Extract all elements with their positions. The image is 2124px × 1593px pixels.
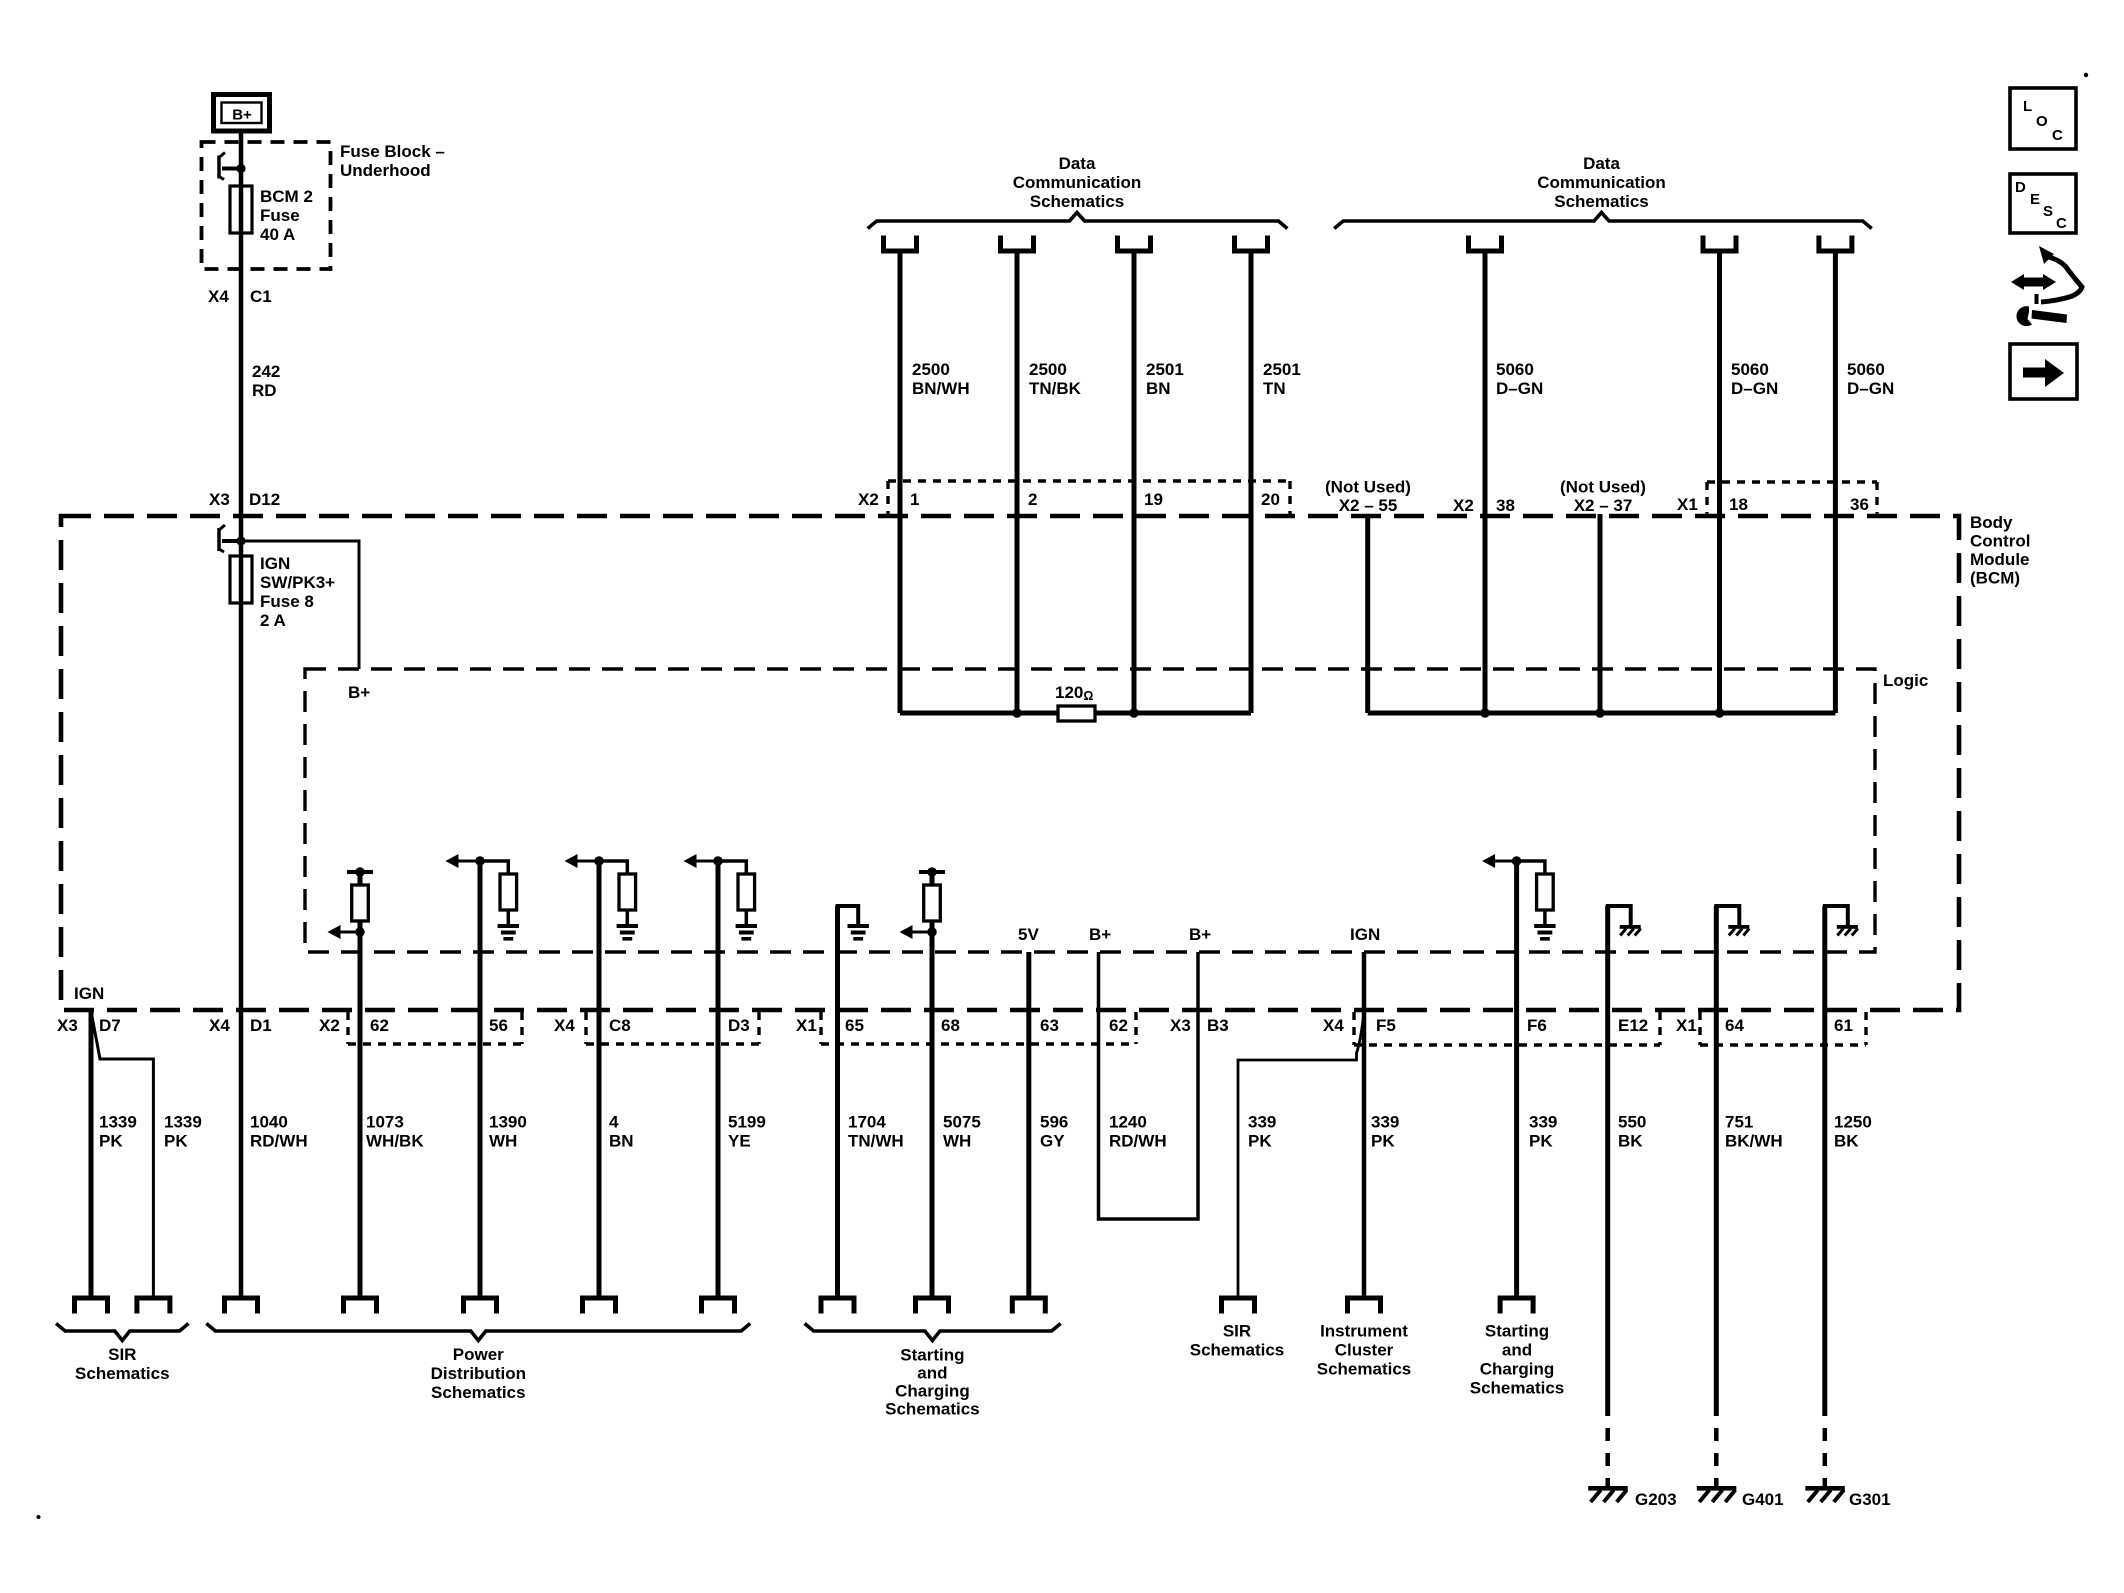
svg-text:2500: 2500 — [912, 360, 950, 379]
svg-text:D–GN: D–GN — [1731, 379, 1778, 398]
svg-text:C: C — [2052, 127, 2063, 144]
svg-text:1250: 1250 — [1834, 1113, 1872, 1132]
svg-text:596: 596 — [1040, 1113, 1068, 1132]
svg-text:C1: C1 — [250, 287, 272, 306]
svg-text:X4: X4 — [208, 287, 229, 306]
svg-text:Charging: Charging — [895, 1382, 970, 1401]
svg-text:D12: D12 — [249, 490, 280, 509]
svg-text:339: 339 — [1371, 1113, 1399, 1132]
svg-text:B+: B+ — [232, 107, 252, 124]
svg-text:(BCM): (BCM) — [1970, 569, 2020, 588]
svg-text:SW/PK3+: SW/PK3+ — [260, 573, 335, 592]
svg-text:Data: Data — [1583, 154, 1620, 173]
svg-text:Starting: Starting — [1485, 1322, 1549, 1341]
svg-text:X3: X3 — [1170, 1016, 1191, 1035]
svg-text:5V: 5V — [1018, 925, 1039, 944]
svg-text:IGN: IGN — [260, 554, 290, 573]
svg-text:1390: 1390 — [489, 1113, 527, 1132]
svg-text:GY: GY — [1040, 1132, 1065, 1151]
svg-text:56: 56 — [489, 1016, 508, 1035]
svg-text:751: 751 — [1725, 1113, 1753, 1132]
svg-text:1339: 1339 — [164, 1113, 202, 1132]
svg-text:B+: B+ — [1189, 925, 1211, 944]
svg-text:Module: Module — [1970, 550, 2030, 569]
svg-text:Data: Data — [1059, 154, 1096, 173]
svg-text:36: 36 — [1850, 495, 1869, 514]
svg-text:X3: X3 — [209, 490, 230, 509]
svg-text:4: 4 — [609, 1113, 619, 1132]
svg-text:BN/WH: BN/WH — [912, 379, 970, 398]
svg-text:F6: F6 — [1527, 1016, 1547, 1035]
svg-text:WH: WH — [943, 1132, 971, 1151]
svg-text:Cluster: Cluster — [1335, 1341, 1394, 1360]
svg-text:D–GN: D–GN — [1847, 379, 1894, 398]
svg-text:61: 61 — [1834, 1016, 1853, 1035]
svg-text:X1: X1 — [1677, 495, 1698, 514]
svg-text:68: 68 — [941, 1016, 960, 1035]
svg-text:2500: 2500 — [1029, 360, 1067, 379]
svg-text:TN/WH: TN/WH — [848, 1132, 904, 1151]
svg-text:20: 20 — [1261, 490, 1280, 509]
svg-text:1: 1 — [910, 490, 919, 509]
svg-text:SIR: SIR — [1223, 1322, 1251, 1341]
svg-text:339: 339 — [1248, 1113, 1276, 1132]
svg-text:BN: BN — [609, 1132, 634, 1151]
svg-text:38: 38 — [1496, 496, 1515, 515]
svg-text:X3: X3 — [57, 1016, 78, 1035]
svg-text:BCM 2: BCM 2 — [260, 187, 313, 206]
svg-text:Fuse Block –: Fuse Block – — [340, 142, 445, 161]
svg-text:2: 2 — [1028, 490, 1037, 509]
svg-text:X1: X1 — [796, 1016, 817, 1035]
svg-text:IGN: IGN — [74, 984, 104, 1003]
svg-text:B+: B+ — [1089, 925, 1111, 944]
svg-text:PK: PK — [1248, 1132, 1272, 1151]
svg-text:5060: 5060 — [1731, 360, 1769, 379]
svg-text:SIR: SIR — [108, 1345, 136, 1364]
svg-text:Schematics: Schematics — [431, 1383, 526, 1402]
svg-text:Instrument: Instrument — [1320, 1322, 1408, 1341]
svg-text:PK: PK — [1371, 1132, 1395, 1151]
svg-text:Communication: Communication — [1013, 173, 1141, 192]
svg-text:O: O — [2036, 113, 2048, 130]
svg-text:RD/WH: RD/WH — [1109, 1132, 1167, 1151]
svg-text:X4: X4 — [1323, 1016, 1344, 1035]
svg-text:Schematics: Schematics — [1317, 1360, 1412, 1379]
svg-text:X2 – 55: X2 – 55 — [1339, 496, 1398, 515]
svg-text:Distribution: Distribution — [431, 1364, 526, 1383]
svg-text:2 A: 2 A — [260, 611, 286, 630]
svg-text:64: 64 — [1725, 1016, 1744, 1035]
svg-text:5199: 5199 — [728, 1113, 766, 1132]
svg-text:RD/WH: RD/WH — [250, 1132, 308, 1151]
svg-text:5075: 5075 — [943, 1113, 981, 1132]
svg-text:62: 62 — [1109, 1016, 1128, 1035]
svg-text:Body: Body — [1970, 513, 2013, 532]
svg-text:Underhood: Underhood — [340, 161, 431, 180]
svg-text:G203: G203 — [1635, 1490, 1677, 1509]
svg-text:D3: D3 — [728, 1016, 750, 1035]
svg-text:X4: X4 — [554, 1016, 575, 1035]
svg-text:62: 62 — [370, 1016, 389, 1035]
svg-text:E: E — [2030, 191, 2040, 208]
svg-text:X4: X4 — [209, 1016, 230, 1035]
svg-text:D–GN: D–GN — [1496, 379, 1543, 398]
svg-text:1040: 1040 — [250, 1113, 288, 1132]
svg-text:X2: X2 — [319, 1016, 340, 1035]
svg-text:1240: 1240 — [1109, 1113, 1147, 1132]
svg-text:18: 18 — [1729, 495, 1748, 514]
svg-text:Fuse: Fuse — [260, 206, 300, 225]
svg-text:Schematics: Schematics — [1554, 192, 1649, 211]
svg-text:1339: 1339 — [99, 1113, 137, 1132]
svg-text:1704: 1704 — [848, 1113, 886, 1132]
svg-text:TN/BK: TN/BK — [1029, 379, 1082, 398]
svg-text:(Not Used): (Not Used) — [1325, 478, 1411, 497]
svg-text:Schematics: Schematics — [885, 1400, 980, 1419]
svg-text:BK/WH: BK/WH — [1725, 1132, 1783, 1151]
svg-text:2501: 2501 — [1146, 360, 1184, 379]
svg-text:YE: YE — [728, 1132, 751, 1151]
svg-text:C: C — [2056, 215, 2067, 232]
svg-text:WH/BK: WH/BK — [366, 1132, 424, 1151]
svg-text:5060: 5060 — [1496, 360, 1534, 379]
svg-text:40 A: 40 A — [260, 225, 295, 244]
svg-text:65: 65 — [845, 1016, 864, 1035]
svg-text:Schematics: Schematics — [1030, 192, 1125, 211]
svg-text:X2 – 37: X2 – 37 — [1574, 496, 1633, 515]
svg-text:G401: G401 — [1742, 1490, 1784, 1509]
svg-text:BK: BK — [1618, 1132, 1643, 1151]
svg-text:X2: X2 — [858, 490, 879, 509]
svg-text:C8: C8 — [609, 1016, 631, 1035]
svg-text:242: 242 — [252, 362, 280, 381]
svg-text:X1: X1 — [1676, 1016, 1697, 1035]
svg-text:S: S — [2043, 203, 2053, 220]
svg-text:F5: F5 — [1376, 1016, 1396, 1035]
svg-text:D7: D7 — [99, 1016, 121, 1035]
svg-text:1073: 1073 — [366, 1113, 404, 1132]
svg-text:PK: PK — [164, 1132, 188, 1151]
svg-text:and: and — [917, 1364, 947, 1383]
svg-text:PK: PK — [99, 1132, 123, 1151]
svg-text:Communication: Communication — [1537, 173, 1665, 192]
svg-text:and: and — [1502, 1341, 1532, 1360]
svg-text:5060: 5060 — [1847, 360, 1885, 379]
svg-text:Power: Power — [453, 1345, 504, 1364]
svg-text:339: 339 — [1529, 1113, 1557, 1132]
svg-text:PK: PK — [1529, 1132, 1553, 1151]
svg-text:RD: RD — [252, 381, 277, 400]
svg-text:B3: B3 — [1207, 1016, 1229, 1035]
svg-text:G301: G301 — [1849, 1490, 1891, 1509]
svg-text:Schematics: Schematics — [1190, 1341, 1285, 1360]
svg-text:B+: B+ — [348, 683, 370, 702]
svg-text:Charging: Charging — [1480, 1360, 1555, 1379]
svg-text:D1: D1 — [250, 1016, 272, 1035]
svg-text:BN: BN — [1146, 379, 1171, 398]
svg-text:63: 63 — [1040, 1016, 1059, 1035]
svg-text:(Not Used): (Not Used) — [1560, 478, 1646, 497]
svg-text:Logic: Logic — [1883, 671, 1928, 690]
svg-text:TN: TN — [1263, 379, 1286, 398]
svg-text:L: L — [2023, 98, 2032, 115]
svg-text:19: 19 — [1144, 490, 1163, 509]
svg-text:D: D — [2015, 179, 2026, 196]
svg-text:IGN: IGN — [1350, 925, 1380, 944]
svg-text:Starting: Starting — [900, 1346, 964, 1365]
svg-text:Schematics: Schematics — [1470, 1379, 1565, 1398]
svg-text:2501: 2501 — [1263, 360, 1301, 379]
svg-text:Fuse 8: Fuse 8 — [260, 592, 314, 611]
svg-text:550: 550 — [1618, 1113, 1646, 1132]
svg-text:X2: X2 — [1453, 496, 1474, 515]
svg-text:E12: E12 — [1618, 1016, 1648, 1035]
svg-text:Schematics: Schematics — [75, 1364, 170, 1383]
svg-text:WH: WH — [489, 1132, 517, 1151]
svg-text:Control: Control — [1970, 532, 2030, 551]
svg-text:BK: BK — [1834, 1132, 1859, 1151]
